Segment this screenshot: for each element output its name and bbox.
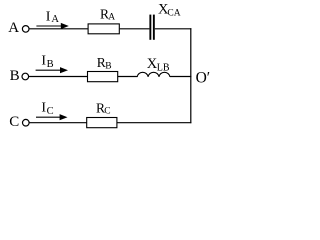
svg-text:A: A: [108, 13, 115, 23]
label R_B: [97, 55, 112, 71]
wire: [117, 122, 191, 124]
label R_A: [100, 6, 115, 22]
current arrow I_A: [36, 23, 68, 29]
svg-text:CA: CA: [167, 8, 180, 18]
svg-text:LB: LB: [157, 62, 170, 73]
wire: [155, 28, 192, 30]
terminal C: [23, 119, 30, 126]
inductor X_LB: [137, 72, 170, 77]
svg-text:C: C: [9, 114, 19, 130]
wire: [29, 76, 88, 78]
label X_LB: [147, 56, 170, 73]
svg-text:O′: O′: [196, 69, 211, 86]
label R_C: [96, 100, 111, 116]
resistor R_C: [87, 118, 117, 128]
current arrow I_B: [36, 67, 68, 73]
resistor R_B: [88, 72, 118, 82]
svg-text:B: B: [10, 68, 20, 84]
wire: [29, 28, 88, 30]
label X_CA: [158, 2, 181, 19]
svg-text:I: I: [46, 10, 51, 25]
svg-text:A: A: [8, 20, 19, 36]
wire: [118, 76, 138, 78]
wire: [170, 76, 192, 78]
label I_C: [41, 100, 53, 117]
label I_B: [41, 54, 53, 71]
svg-text:C: C: [104, 107, 110, 117]
svg-text:C: C: [47, 106, 54, 117]
svg-text:A: A: [51, 14, 59, 25]
terminal A: [22, 26, 29, 33]
wire: [120, 28, 150, 30]
resistor R_A: [88, 24, 119, 34]
current arrow I_C: [36, 114, 68, 120]
label I_A: [46, 10, 60, 25]
terminal B: [22, 73, 29, 80]
svg-text:B: B: [47, 59, 54, 70]
capacitor X_CA: [149, 15, 154, 40]
wire (right bus vertical): [190, 28, 192, 123]
wire: [29, 122, 86, 124]
svg-text:B: B: [105, 61, 111, 71]
